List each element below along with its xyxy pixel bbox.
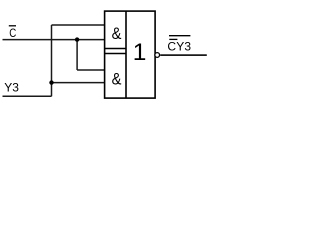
separator line below top AND cell [105, 48, 126, 50]
svg-text:CY3: CY3 [167, 40, 191, 54]
wire Y3 input horizontal [3, 95, 52, 97]
wire C-bar input horizontal [3, 39, 105, 41]
inverter bubble at output [155, 53, 160, 58]
node junction on Y3 net [49, 80, 53, 84]
wire branch to bottom AND input 2 [52, 82, 105, 84]
svg-text:Y3: Y3 [4, 80, 19, 94]
inner overline over C of output [169, 38, 177, 40]
wire Y3 vertical riser [51, 25, 53, 96]
overline of input C [9, 25, 16, 27]
outer overline over CY3 [169, 35, 190, 37]
svg-text:&: & [112, 71, 122, 89]
svg-text:C: C [9, 26, 16, 40]
svg-text:&: & [112, 25, 122, 43]
wire output horizontal [160, 54, 207, 56]
wire top AND input 1 [52, 24, 105, 26]
divider between AND column and OR column [125, 11, 127, 98]
wire C-bar vertical drop [76, 40, 78, 70]
node junction on C-bar net [75, 37, 79, 41]
svg-text:1: 1 [133, 39, 147, 66]
wire bottom AND input 1 [77, 69, 105, 71]
separator line above bottom AND cell [105, 53, 126, 55]
IC body outline [105, 11, 156, 98]
